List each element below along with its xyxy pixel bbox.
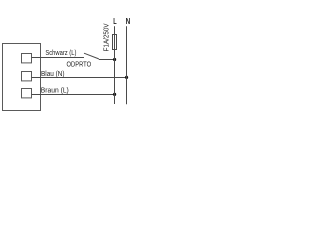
L supply line	[114, 26, 116, 104]
wire Braun (L)	[32, 94, 116, 96]
wire Schwarz (L)	[32, 57, 85, 59]
svg-text:F1A/250V: F1A/250V	[101, 23, 110, 52]
fuse F1	[113, 35, 117, 50]
switch blade (open)	[84, 53, 99, 59]
svg-text:Schwarz (L): Schwarz (L)	[45, 48, 76, 57]
terminal T2	[22, 72, 32, 81]
junction dot N / Blau	[125, 76, 128, 79]
terminal T3	[22, 89, 32, 98]
svg-text:N: N	[126, 17, 130, 26]
svg-text:Blau (N): Blau (N)	[41, 69, 65, 78]
N supply line	[126, 26, 128, 104]
terminal block housing	[3, 44, 41, 111]
terminal T1	[22, 54, 32, 63]
wire Blau (N)	[32, 77, 128, 79]
junction dot L / Braun	[113, 93, 116, 96]
svg-text:ODPRTO: ODPRTO	[67, 60, 92, 69]
wire switch to L line	[99, 59, 115, 61]
svg-text:Braun (L): Braun (L)	[41, 86, 69, 95]
junction dot L / Schwarz	[113, 58, 116, 61]
svg-text:L: L	[113, 17, 116, 26]
